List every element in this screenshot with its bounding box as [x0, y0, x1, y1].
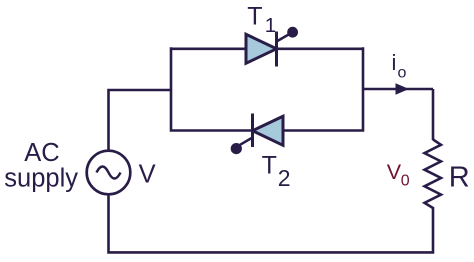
current arrow io [396, 83, 410, 94]
svg-text:V: V [387, 160, 402, 184]
svg-text:i: i [392, 50, 397, 75]
resistor R zigzag [425, 140, 442, 209]
wire from AC supply top to parallel branch left node [109, 90, 172, 152]
thyristor T2 gate lead [240, 138, 253, 145]
svg-text:o: o [398, 65, 407, 82]
thyristor T2 cathode bar [251, 114, 254, 148]
svg-text:2: 2 [278, 165, 291, 191]
svg-text:R: R [449, 161, 470, 193]
thyristor T2 gate dot [231, 143, 242, 154]
wire load top lead [432, 89, 435, 140]
thyristor T1 gate dot [287, 27, 298, 38]
wire output from branch to load [363, 88, 433, 91]
thyristor T1 triangle [246, 34, 277, 63]
thyristor T2 triangle [253, 116, 284, 145]
thyristor T1 gate lead [277, 34, 290, 42]
svg-text:T: T [247, 3, 262, 31]
svg-text:1: 1 [265, 14, 276, 37]
svg-text:supply: supply [4, 165, 78, 193]
AC source sine wave [97, 167, 121, 179]
svg-text:T: T [262, 152, 277, 180]
svg-text:V: V [139, 161, 156, 189]
thyristor T1 cathode bar [275, 32, 278, 67]
wire bottom return from load to AC supply [109, 193, 434, 252]
AC source circle [87, 151, 131, 195]
svg-text:AC: AC [24, 139, 59, 167]
svg-text:0: 0 [401, 173, 410, 190]
wire loop of antiparallel thyristor branch [171, 47, 363, 132]
